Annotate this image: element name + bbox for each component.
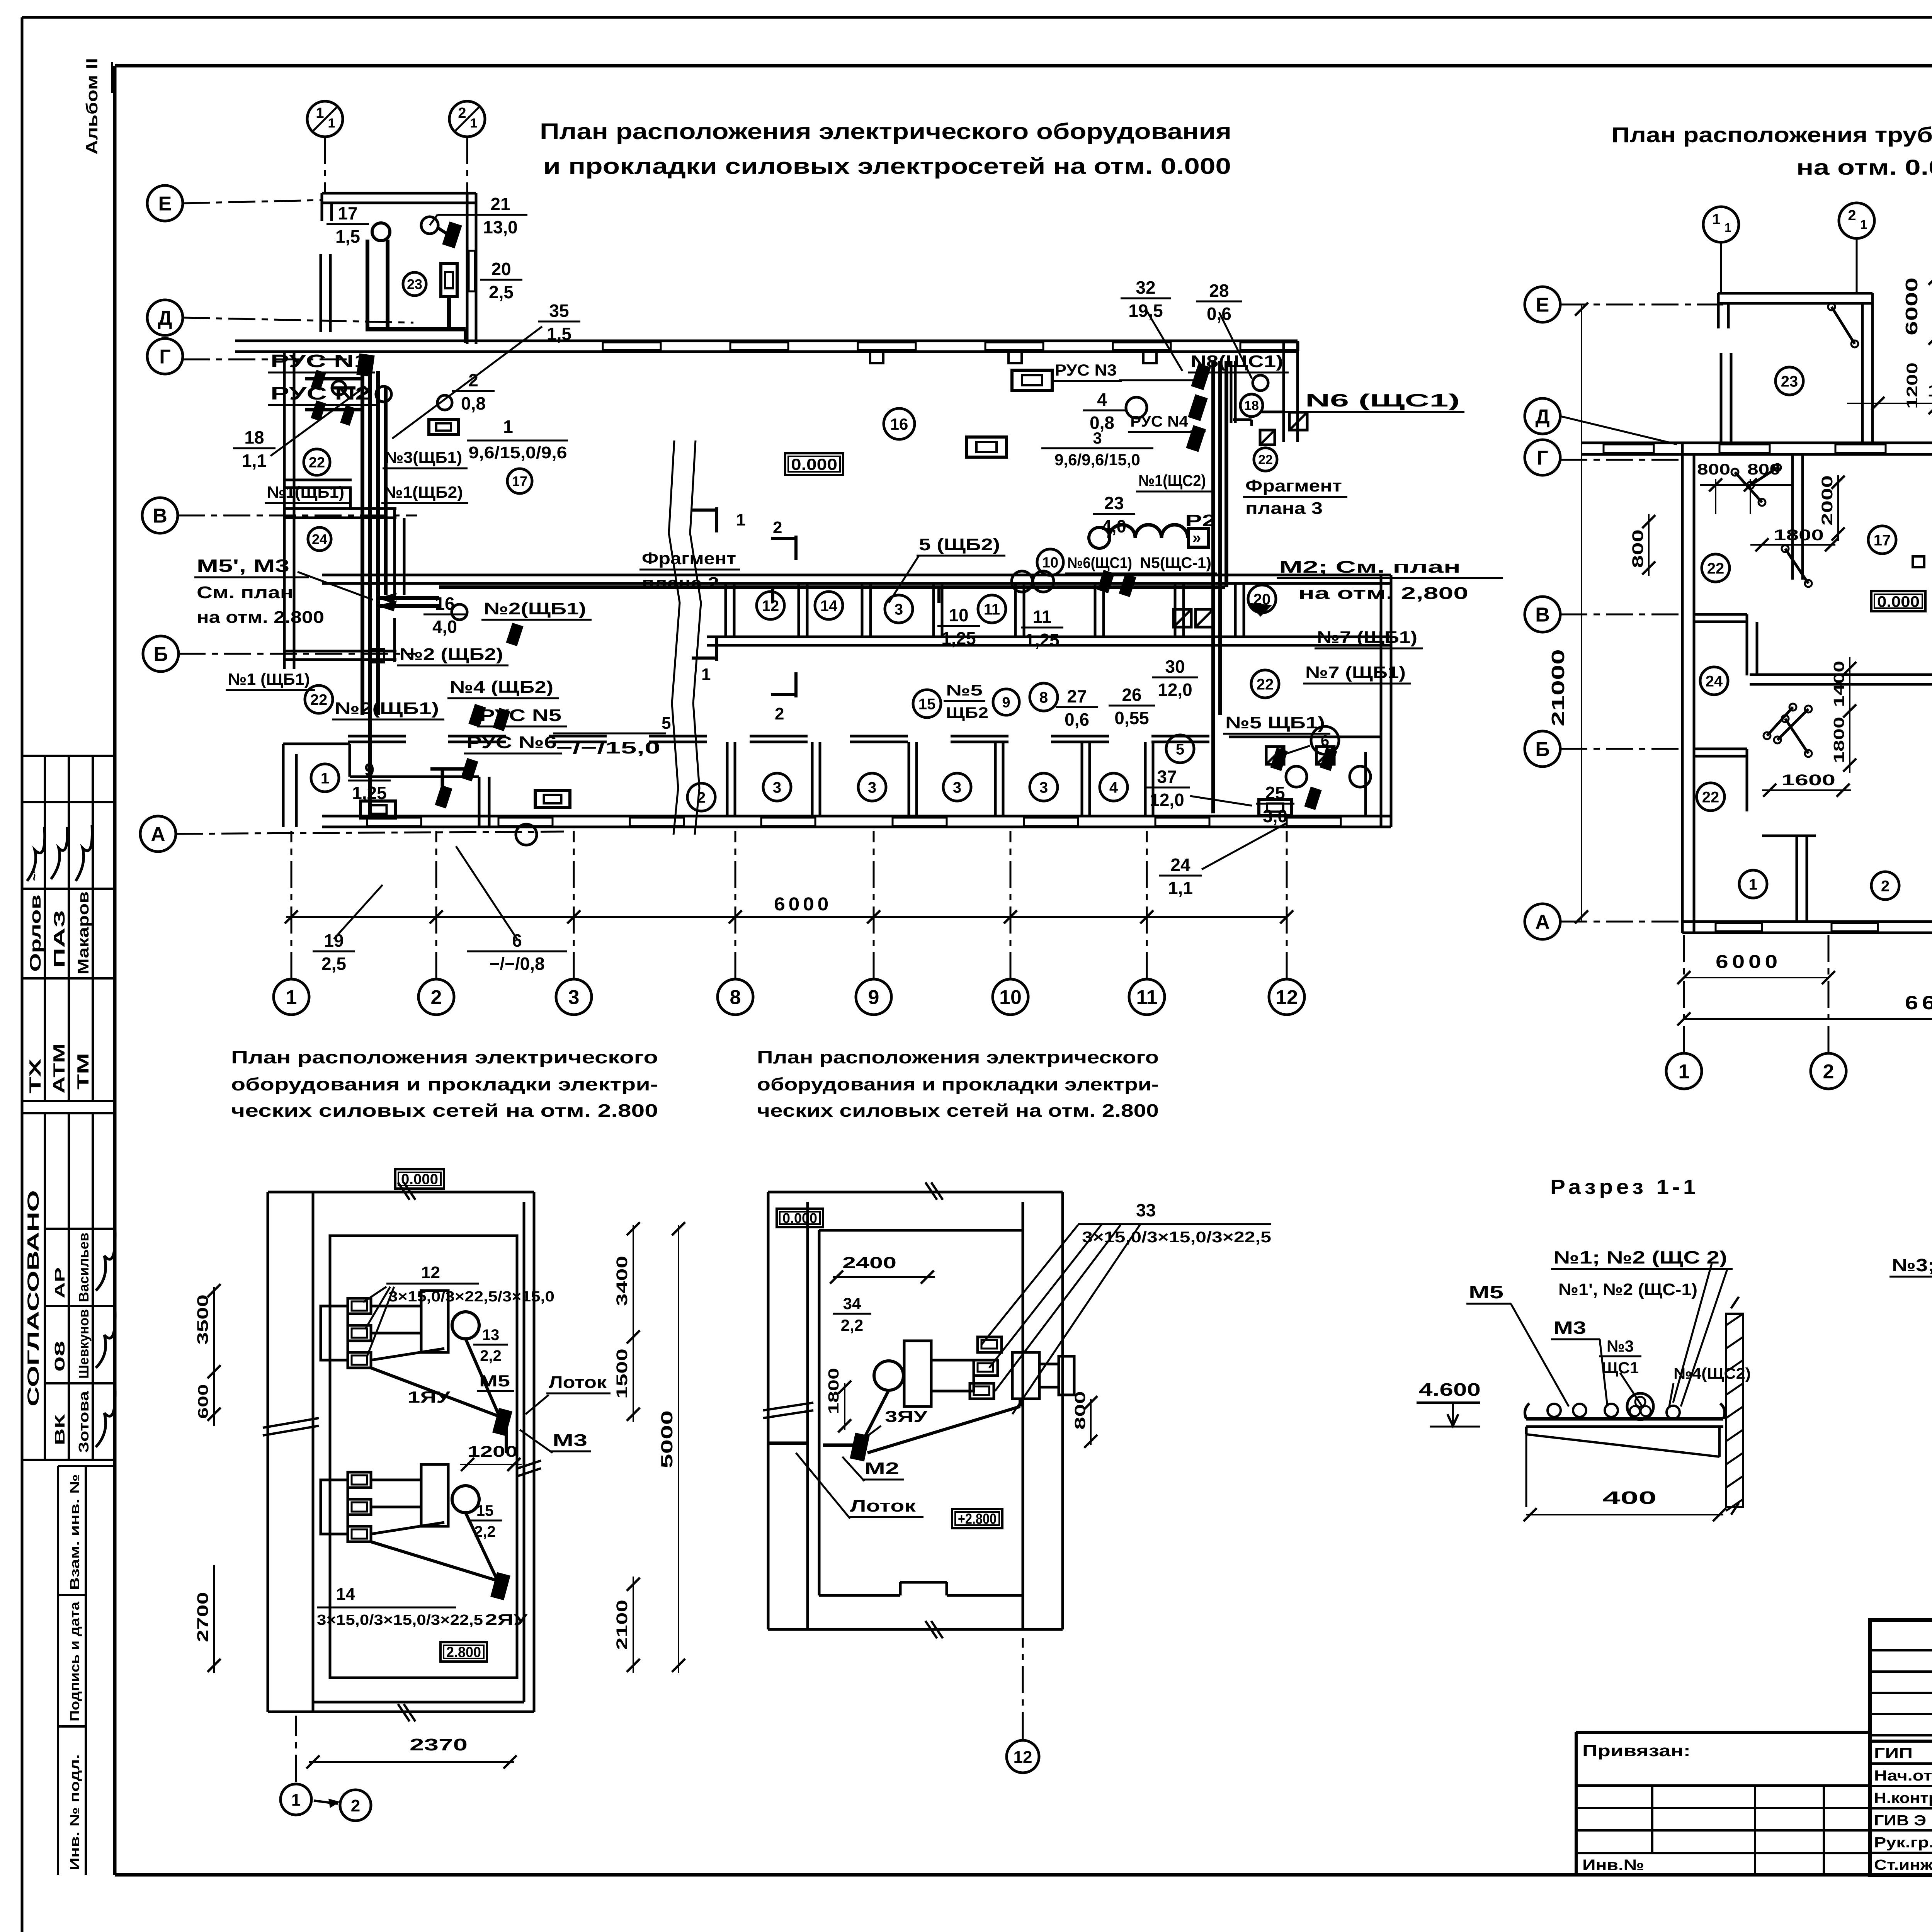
margin table soglasovano — [21, 1113, 115, 1460]
svg-text:2,2: 2,2 — [841, 1316, 863, 1334]
svg-text:3,0: 3,0 — [1263, 806, 1287, 826]
r dim 6000 left — [1677, 952, 1835, 984]
col axis 2 — [435, 831, 437, 979]
tb small rows left — [1870, 1650, 1932, 1735]
svg-text:28: 28 — [1209, 281, 1229, 301]
svg-text:24: 24 — [312, 531, 327, 547]
svg-text:1: 1 — [1679, 1061, 1690, 1083]
b2 break marks — [763, 1182, 943, 1638]
b1 dims left — [194, 1284, 221, 1673]
r col bubble 1 — [1666, 1053, 1702, 1089]
partition x3041 — [1175, 583, 1184, 637]
b1 title — [231, 1047, 658, 1121]
svg-text:ЩБ2: ЩБ2 — [946, 704, 988, 721]
svg-text:600: 600 — [195, 1384, 211, 1419]
r top bubble 2/1 — [1839, 203, 1874, 238]
svg-text:21: 21 — [490, 194, 510, 214]
svg-text:33: 33 — [1136, 1200, 1156, 1220]
svg-text:0,55: 0,55 — [1114, 708, 1149, 728]
svg-text:12,0: 12,0 — [1150, 790, 1184, 810]
lbl m2 smplan — [1248, 558, 1503, 617]
s1 wall — [1726, 1297, 1743, 1515]
svg-text:2,5: 2,5 — [489, 282, 514, 302]
svg-text:24: 24 — [1706, 673, 1723, 690]
svg-text:3: 3 — [953, 779, 961, 796]
b1 outer walls — [268, 1192, 534, 1712]
lbl 26/0,55 — [1109, 685, 1155, 728]
svg-text:N5(ЩС-1): N5(ЩС-1) — [1140, 554, 1211, 571]
svg-text:1500: 1500 — [614, 1349, 631, 1399]
svg-text:4,0: 4,0 — [432, 617, 457, 637]
window ticks top — [870, 352, 1156, 363]
svg-text:Макаров: Макаров — [75, 891, 92, 975]
svg-text:N8(ЩС1): N8(ЩС1) — [1190, 352, 1283, 371]
svg-text:Н.контр.: Н.контр. — [1874, 1790, 1932, 1806]
svg-text:А: А — [1535, 911, 1550, 934]
svg-text:№1(ЩБ2): №1(ЩБ2) — [384, 483, 463, 501]
r axis line A — [1560, 921, 1685, 923]
room c14 — [815, 592, 843, 619]
svg-text:Е: Е — [158, 193, 172, 215]
svg-text:23: 23 — [1781, 373, 1798, 390]
r axis line V — [1560, 614, 1685, 616]
svg-text:3×15,0/3×22,5/3×15,0: 3×15,0/3×22,5/3×15,0 — [388, 1289, 554, 1305]
svg-text:12: 12 — [1276, 986, 1298, 1009]
b2 wires — [768, 1390, 1020, 1453]
room c22c — [1251, 670, 1279, 698]
r axis bubble G — [1525, 440, 1560, 475]
room c2 — [687, 783, 715, 811]
svg-text:3: 3 — [1093, 429, 1102, 447]
b1 dim 2370 — [306, 1735, 517, 1769]
svg-text:18: 18 — [1244, 398, 1259, 413]
room c17 — [507, 469, 532, 493]
annex pipe — [366, 223, 466, 343]
svg-text:»: » — [1192, 529, 1201, 546]
lbl 1/frac — [467, 417, 568, 462]
col bubble 9 — [856, 979, 891, 1015]
r axis bubble V — [1525, 597, 1560, 632]
b1 yashik1 — [492, 1408, 512, 1436]
svg-text:1600: 1600 — [1781, 772, 1835, 789]
lbl 27/0,6 — [1056, 686, 1098, 730]
blob right riser 1 — [1191, 363, 1211, 390]
lbl 19/2,5 — [313, 885, 383, 974]
b2 label34 — [833, 1294, 871, 1334]
svg-text:1: 1 — [1860, 218, 1867, 231]
svg-text:2.800: 2.800 — [446, 1645, 481, 1661]
r dim 6000 rot — [1902, 267, 1932, 346]
blob right riser 2 — [1188, 394, 1207, 421]
r door b2 — [1774, 706, 1812, 743]
col axis 1 — [291, 831, 293, 979]
s1 label M3 — [1551, 1318, 1607, 1406]
axis drop 2/1 — [466, 137, 468, 193]
blob rus56 — [468, 704, 510, 731]
svg-text:0,6: 0,6 — [1065, 709, 1089, 730]
svg-text:Васильев: Васильев — [76, 1233, 92, 1302]
svg-text:3ЯУ: 3ЯУ — [885, 1407, 928, 1425]
svg-text:9: 9 — [364, 760, 374, 780]
lbl 10 no6 — [1037, 549, 1138, 575]
lbl 5 frac — [553, 714, 671, 757]
axis bubble D — [147, 300, 183, 335]
svg-text:4: 4 — [1097, 389, 1107, 410]
room c16 — [884, 408, 915, 439]
partition x2834 — [1095, 583, 1104, 637]
r axis line B — [1560, 748, 1685, 750]
svg-text:1: 1 — [328, 116, 335, 131]
svg-text:17: 17 — [1874, 532, 1891, 549]
rooms lower wall — [707, 637, 1391, 645]
svg-text:13,0: 13,0 — [483, 217, 518, 237]
svg-text:18: 18 — [244, 427, 264, 447]
svg-text:№4(ЩС2): №4(ЩС2) — [1673, 1365, 1751, 1382]
svg-text:2: 2 — [431, 986, 442, 1009]
col bubble 3 — [556, 979, 592, 1015]
svg-text:Взам. инв. №: Взам. инв. № — [68, 1474, 82, 1590]
left block room walls — [284, 509, 404, 662]
svg-text:2ЯУ: 2ЯУ — [485, 1611, 528, 1628]
lower partition x2576 — [995, 742, 1003, 816]
lamp rus1 — [332, 381, 346, 395]
s1 label no3 — [1599, 1337, 1642, 1406]
svg-text:2,2: 2,2 — [480, 1347, 502, 1364]
coil room2 — [535, 791, 570, 808]
axis bubble V — [142, 498, 178, 533]
b1 label 13 — [473, 1327, 508, 1364]
axis bubble G — [147, 338, 183, 374]
svg-text:№7 (ЩБ1): №7 (ЩБ1) — [1305, 663, 1406, 682]
b1 label M3 — [520, 1430, 591, 1453]
svg-text:12: 12 — [762, 597, 779, 614]
b2 dim2400 — [830, 1253, 935, 1284]
lbl frag3 — [1243, 476, 1347, 518]
lamp g4 — [1126, 397, 1147, 418]
svg-text:ческих силовых сетей на отм. 2: ческих силовых сетей на отм. 2.800 — [757, 1100, 1159, 1121]
r axis line G — [1560, 459, 1685, 461]
axis line V — [178, 515, 417, 517]
svg-text:0,8: 0,8 — [461, 393, 486, 413]
svg-text:РУС №6: РУС №6 — [466, 733, 557, 752]
svg-text:08: 08 — [52, 1341, 68, 1372]
inner drawing frame — [115, 64, 1932, 68]
svg-text:800: 800 — [1747, 461, 1781, 478]
svg-text:№3(ЩБ1): №3(ЩБ1) — [385, 448, 462, 466]
room1 walls — [283, 744, 489, 827]
lbl 16/4,0 — [423, 594, 466, 637]
b1 label lotok — [526, 1373, 611, 1414]
svg-text:АТМ: АТМ — [50, 1043, 68, 1094]
blob corridor mid — [1097, 570, 1136, 597]
lbl n8 shs1 — [1188, 352, 1289, 372]
lbl 20/2,5 — [480, 259, 522, 302]
b2 2800 box — [952, 1509, 1002, 1528]
lbl 35/1,5 — [392, 301, 580, 439]
r bottom wall — [1682, 922, 1932, 933]
svg-text:3: 3 — [895, 601, 903, 618]
r annex walls — [1718, 293, 1872, 443]
svg-text:№6(ЩС1): №6(ЩС1) — [1067, 554, 1132, 571]
coil b37 — [1259, 799, 1291, 816]
xbox top — [1289, 412, 1307, 430]
lbl 28/0,6 — [1196, 281, 1252, 379]
lbl rus n2 — [268, 383, 376, 405]
svg-text:10: 10 — [999, 986, 1022, 1009]
lbl no3 shb1 — [383, 448, 468, 468]
margin table inv — [58, 1466, 114, 1875]
svg-text:0.000: 0.000 — [791, 455, 837, 473]
svg-text:16: 16 — [890, 415, 908, 433]
lbl n5 shs-1 — [1138, 554, 1217, 573]
r axis bubble E — [1525, 287, 1560, 322]
svg-text:плана 3: плана 3 — [1245, 499, 1323, 518]
svg-text:1800: 1800 — [1774, 527, 1824, 544]
svg-text:0.000: 0.000 — [782, 1210, 817, 1226]
svg-text:1400: 1400 — [1831, 661, 1847, 707]
tb roles — [1874, 1745, 1932, 1873]
svg-text:Подпись и дата: Подпись и дата — [68, 1601, 82, 1721]
b2 label 3yu — [866, 1407, 928, 1437]
svg-text:1,25: 1,25 — [1025, 630, 1060, 650]
lbl 21/13,0 — [430, 194, 527, 237]
lbl 18/1,1 — [233, 386, 366, 471]
lbl rus n5 — [477, 706, 567, 726]
svg-text:4,0: 4,0 — [1102, 516, 1126, 536]
svg-text:800: 800 — [1629, 529, 1646, 568]
svg-text:АР: АР — [52, 1267, 68, 1298]
svg-text:1: 1 — [291, 1791, 301, 1810]
room c6 — [1275, 726, 1339, 757]
svg-text:27: 27 — [1067, 686, 1087, 706]
svg-text:Е: Е — [1536, 294, 1549, 316]
svg-text:Д: Д — [158, 307, 172, 330]
blob rus 1 — [311, 370, 326, 391]
sec mark 1 bot — [692, 636, 717, 684]
svg-text:5000: 5000 — [658, 1410, 676, 1468]
svg-text:Лоток: Лоток — [850, 1497, 916, 1515]
svg-text:15: 15 — [476, 1502, 494, 1519]
svg-text:№3; №4 (ЩБ2): №3; №4 (ЩБ2) — [1892, 1255, 1932, 1275]
svg-text:См. план: См. план — [197, 583, 293, 602]
b2 outer walls — [768, 1192, 1063, 1629]
svg-text:N6 (ЩС1): N6 (ЩС1) — [1305, 390, 1460, 410]
svg-text:1: 1 — [286, 986, 297, 1009]
r wall v1 — [1793, 454, 1803, 580]
lbl rus n4 — [1128, 413, 1206, 432]
lbl rus n6 — [464, 733, 562, 753]
svg-text:23: 23 — [407, 276, 422, 292]
r ceil tick1 — [1913, 556, 1924, 567]
partition x1878 — [726, 583, 734, 637]
svg-text:План расположения электрическо: План расположения электрического — [231, 1047, 658, 1067]
svg-text:№3: №3 — [1607, 1337, 1634, 1355]
svg-text:1: 1 — [316, 105, 324, 121]
lamp rus2 — [376, 386, 391, 402]
lbl n6 shs1 — [1284, 390, 1464, 412]
r dim 800 800 — [1697, 461, 1793, 514]
svg-text:№1', №2 (ЩС-1): №1', №2 (ЩС-1) — [1558, 1280, 1697, 1299]
r door annex — [1828, 303, 1858, 347]
blob annex 1 — [442, 221, 462, 248]
svg-text:на отм. 0.000: на отм. 0.000 — [1796, 155, 1932, 179]
room c3a — [885, 595, 913, 623]
b2 label lotok — [796, 1453, 923, 1519]
r dim 1400 1800 rot — [1831, 657, 1856, 773]
lower partition x1882 — [727, 742, 735, 816]
riser bundle vertical — [362, 371, 386, 815]
b2 dim1800 — [826, 1368, 851, 1432]
b2 title — [757, 1047, 1159, 1121]
svg-text:2: 2 — [351, 1796, 360, 1815]
room c5 — [1166, 735, 1194, 763]
svg-text:3500: 3500 — [194, 1294, 211, 1345]
svg-text:14: 14 — [820, 597, 838, 614]
blob rus 2 — [311, 400, 326, 421]
room c22a — [304, 449, 330, 475]
svg-text:1,1: 1,1 — [242, 451, 267, 471]
svg-text:0.000: 0.000 — [1877, 593, 1920, 610]
r axis drop 1 — [1720, 242, 1722, 294]
lbl no1 shs2 — [1136, 471, 1211, 492]
blob corridor 1 — [506, 623, 523, 646]
r left wall — [1682, 443, 1694, 933]
svg-text:1800: 1800 — [1831, 717, 1847, 763]
svg-text:12: 12 — [1014, 1748, 1032, 1767]
lbl 4/0,8 — [1083, 389, 1128, 433]
r axis bubble B — [1525, 731, 1560, 767]
svg-text:24: 24 — [1170, 855, 1190, 875]
axis line E — [183, 200, 321, 203]
r switch v — [1782, 545, 1812, 587]
svg-text:1,25: 1,25 — [352, 783, 387, 803]
svg-text:1: 1 — [1749, 876, 1757, 893]
svg-text:6000: 6000 — [774, 894, 832, 915]
r room c22a — [1702, 554, 1730, 582]
s1 label b — [1558, 1280, 1697, 1299]
svg-text:Б: Б — [1535, 738, 1549, 761]
coil lower — [966, 437, 1007, 457]
lbl rus n1 — [268, 351, 375, 372]
svg-text:9: 9 — [868, 986, 879, 1009]
corridor upper wall — [322, 575, 1391, 583]
svg-text:М2; См. план: М2; См. план — [1279, 558, 1461, 577]
r dim 21000 — [1548, 303, 1588, 923]
svg-text:ПАЗ: ПАЗ — [51, 910, 68, 968]
lbl no4 shb2 — [447, 678, 559, 698]
lbl no2 shb1 low — [332, 699, 444, 719]
svg-text:3: 3 — [773, 779, 781, 796]
svg-text:Ст.инж.: Ст.инж. — [1874, 1857, 1932, 1873]
lbl no5 shb2 — [944, 682, 988, 721]
s1 tray — [1525, 1403, 1725, 1427]
svg-text:26: 26 — [1122, 685, 1141, 705]
b2 yashik — [850, 1433, 869, 1461]
lbl 25/3,0 — [1256, 783, 1294, 826]
r room c24 — [1700, 667, 1728, 695]
svg-text:66000: 66000 — [1905, 992, 1932, 1014]
svg-text:Зотова: Зотова — [76, 1391, 92, 1453]
svg-text:2: 2 — [773, 518, 782, 537]
svg-text:СОГЛАСОВАНО: СОГЛАСОВАНО — [24, 1190, 42, 1406]
svg-text:1,25: 1,25 — [941, 628, 976, 648]
r axis bubble D — [1525, 398, 1560, 434]
margin table upper — [21, 756, 114, 1101]
title right plan — [1611, 122, 1932, 179]
axis bubble E — [147, 185, 183, 221]
b1 label 14 — [317, 1585, 528, 1628]
svg-text:РУС N3: РУС N3 — [1055, 361, 1117, 379]
lbl 10/1,25 — [937, 605, 980, 648]
svg-text:М5', М3: М5', М3 — [197, 556, 289, 576]
svg-text:плана 2: плана 2 — [642, 574, 719, 593]
r door b — [1764, 704, 1796, 739]
b1 wire1 — [371, 1339, 506, 1453]
r room22 walls — [1694, 614, 1757, 675]
svg-text:на отм. 2,800: на отм. 2,800 — [1298, 584, 1468, 603]
corridor run — [439, 587, 1225, 603]
svg-text:2370: 2370 — [410, 1735, 468, 1754]
lbl 17/1,5 — [327, 203, 369, 247]
room22 bottom wall — [284, 480, 352, 510]
room c12 — [757, 592, 784, 619]
right block walls — [1231, 341, 1298, 442]
lbl 11/1,25 — [1021, 607, 1063, 650]
svg-text:−/−/15,0: −/−/15,0 — [556, 738, 660, 757]
dim 6000 left — [285, 894, 1293, 923]
axis line G — [183, 359, 348, 361]
b2 label m2 — [842, 1457, 904, 1481]
svg-text:5: 5 — [662, 714, 671, 733]
b1 label 15 — [468, 1502, 502, 1540]
svg-text:3400: 3400 — [614, 1256, 631, 1306]
svg-text:оборудования и прокладки элект: оборудования и прокладки электри- — [757, 1074, 1159, 1094]
lbl no7 shb1 b — [1303, 663, 1411, 684]
svg-text:19: 19 — [324, 930, 344, 951]
s1 title — [1550, 1175, 1699, 1199]
svg-text:№7 (ЩБ1): №7 (ЩБ1) — [1317, 628, 1417, 647]
b1 equip group1 — [321, 1291, 479, 1368]
svg-text:6: 6 — [1321, 732, 1329, 749]
tb role rows — [1870, 1741, 1932, 1853]
svg-text:12,0: 12,0 — [1158, 680, 1192, 700]
svg-text:РУС N1: РУС N1 — [270, 351, 369, 371]
s1 label a — [1551, 1247, 1733, 1269]
svg-text:22: 22 — [1257, 676, 1274, 693]
svg-text:М3: М3 — [553, 1431, 587, 1450]
room c24 — [308, 527, 331, 551]
svg-text:10: 10 — [1042, 555, 1058, 571]
partition x2231 — [862, 583, 871, 637]
svg-text:800: 800 — [1697, 461, 1730, 478]
b1 break marks — [263, 1182, 541, 1721]
b2 dim800 — [1072, 1391, 1097, 1448]
svg-text:3: 3 — [868, 779, 876, 796]
s1 cables — [1548, 1393, 1680, 1420]
r room c2 — [1871, 872, 1899, 900]
col bubble 11 — [1129, 979, 1165, 1015]
col axis 10 — [1010, 831, 1012, 979]
xbox right — [1266, 747, 1334, 764]
svg-text:В: В — [153, 505, 167, 527]
blob rus 3 — [340, 405, 355, 426]
page outer border — [22, 16, 1932, 19]
room18 equip — [1253, 375, 1275, 445]
wavy cable — [1089, 525, 1209, 548]
svg-text:23: 23 — [1104, 493, 1124, 513]
svg-text:12: 12 — [421, 1263, 440, 1282]
svg-text:Д: Д — [1535, 406, 1549, 428]
